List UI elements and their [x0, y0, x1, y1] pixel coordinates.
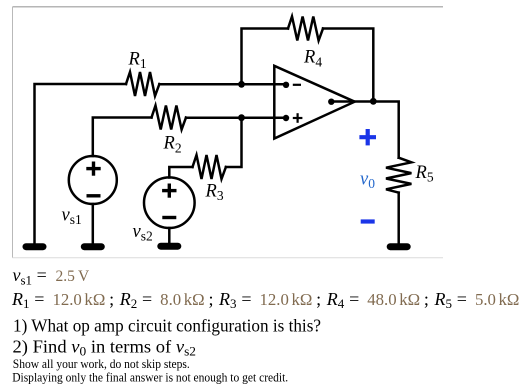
- node: junction R1/R4/minus: [238, 81, 245, 88]
- pin: minus input terminal: [283, 82, 289, 88]
- svg-text:R1: R1: [128, 50, 147, 72]
- vs2 minus sign: [162, 216, 176, 219]
- wire R3 to vs2 top: [169, 167, 192, 178]
- svg-text:R2: R2: [163, 134, 182, 156]
- ground (R5): [387, 243, 411, 250]
- wire R5 to ground: [397, 193, 400, 243]
- resistor R2: [152, 106, 187, 130]
- svg-text:vs2: vs2: [133, 222, 153, 244]
- wire vs1 top to R2: [93, 118, 152, 157]
- svg-text:v0: v0: [360, 170, 375, 192]
- svg-text:R4: R4: [303, 48, 322, 70]
- op-amp U1 triangle: [274, 66, 354, 139]
- svg-text:R5: R5: [415, 163, 434, 185]
- svg-text:vs1: vs1: [62, 206, 82, 228]
- wire R4 to output node: [323, 29, 373, 102]
- wire left vertical + top to R1: [35, 84, 127, 243]
- resistor R3: [193, 155, 226, 179]
- op-amp plus marking: [293, 117, 303, 119]
- ground (vs1): [81, 243, 105, 250]
- vs1 minus sign: [87, 194, 101, 197]
- resistor R1: [126, 72, 159, 96]
- pin: output terminal: [328, 99, 334, 105]
- svg-text:vs1=2.5 V: vs1=2.5 V: [13, 265, 90, 287]
- v0 minus terminal (blue): [361, 219, 375, 223]
- wire output: [332, 102, 399, 158]
- ground (vs2): [157, 243, 181, 250]
- svg-text:Displaying only the final answ: Displaying only the final answer is not …: [12, 371, 288, 385]
- node: output junction: [370, 98, 377, 105]
- vs1 plus sign: [86, 162, 176, 218]
- resistor R4: [288, 17, 323, 41]
- resistor R5: [386, 158, 411, 193]
- vs2 plus sign: [162, 189, 176, 192]
- v0 plus terminal (blue): [359, 129, 376, 222]
- svg-text:2) Find v0 in terms of vs2: 2) Find v0 in terms of vs2: [13, 336, 197, 358]
- node: junction R2/R3/plus: [238, 114, 245, 121]
- wire R2 to plus input: [186, 116, 286, 119]
- source vs2 circle: [144, 177, 195, 228]
- op-amp minus marking: [293, 85, 303, 123]
- pin: plus input terminal: [283, 115, 289, 121]
- wire feedback branch up: [242, 29, 289, 85]
- wire vs2 bottom to ground: [168, 228, 171, 243]
- svg-text:Show all your work, do not ski: Show all your work, do not skip steps.: [13, 357, 190, 371]
- source vs1 circle: [69, 156, 117, 204]
- wire R1 to minus input: [159, 83, 286, 86]
- svg-text:R3: R3: [205, 182, 224, 204]
- wire junction down to R3: [226, 118, 242, 168]
- figure frame: [13, 7, 444, 258]
- wire vs1 bottom to ground: [92, 204, 95, 243]
- svg-text:R1=12.0kΩ;R2=8.0kΩ;R3=12.0kΩ;R: R1=12.0kΩ;R2=8.0kΩ;R3=12.0kΩ;R4=48.0kΩ;R…: [11, 289, 519, 311]
- ground (left wire): [23, 243, 47, 250]
- svg-text:1) What op amp circuit configu: 1) What op amp circuit configuration is …: [13, 316, 321, 337]
